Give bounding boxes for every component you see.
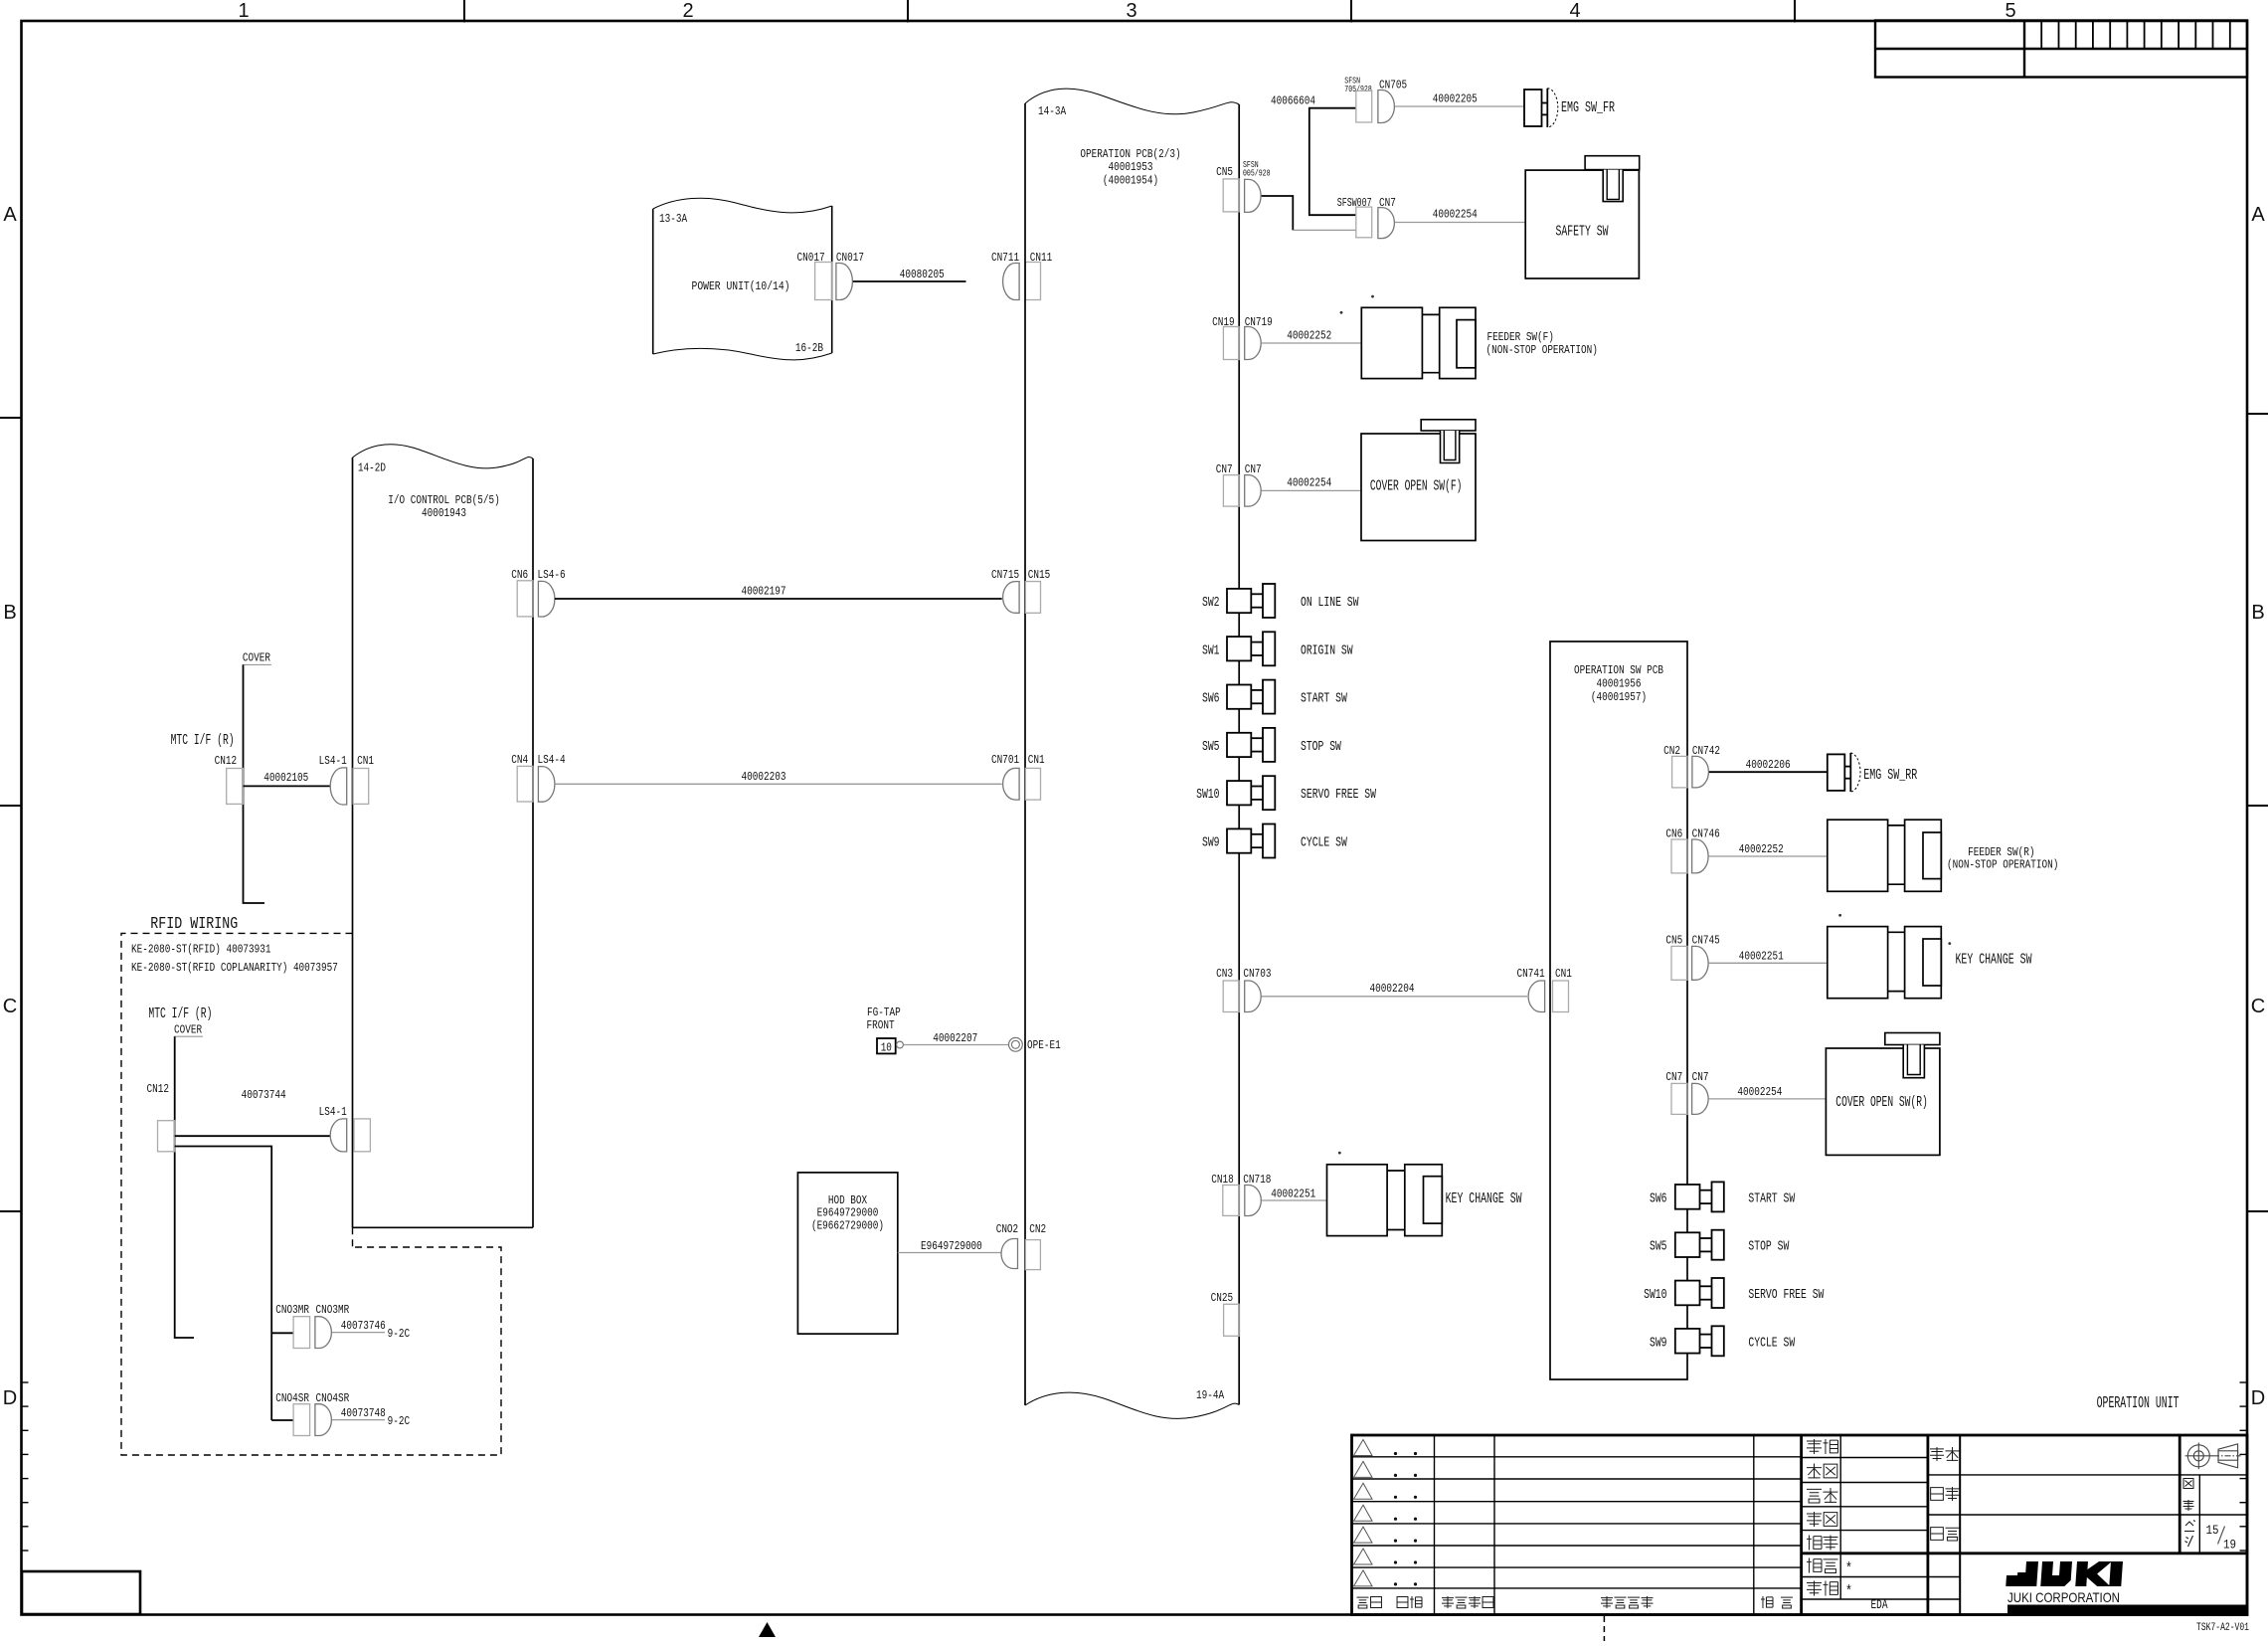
box HOD BOX <box>797 1173 897 1334</box>
emergency switch EMG SW_FR <box>1524 89 1558 127</box>
svg-text:CN4: CN4 <box>511 753 528 767</box>
svg-text:CYCLE SW: CYCLE SW <box>1748 1335 1795 1351</box>
svg-text:CN12: CN12 <box>147 1082 170 1096</box>
svg-text:CN7: CN7 <box>1216 462 1233 476</box>
zone tick top 3|4 <box>1350 0 1352 23</box>
terminal small circle <box>897 1041 904 1048</box>
svg-text:14-3A: 14-3A <box>1038 104 1067 118</box>
board POWER UNIT outline <box>653 198 832 360</box>
scale column thick divider <box>2179 1435 2181 1554</box>
wire 40002252 R <box>1709 855 1828 857</box>
black footer bar <box>2007 1605 2248 1617</box>
svg-text:LS4-1: LS4-1 <box>319 1105 347 1119</box>
switch SW5 (STOP SW) <box>1227 728 1275 762</box>
label hinban (part no.) <box>1931 1488 1944 1501</box>
revision table rows <box>1352 1457 1802 1588</box>
revision triangle row 2 <box>1354 1461 1373 1477</box>
svg-text:CYCLE SW: CYCLE SW <box>1301 835 1347 851</box>
svg-text:SW2: SW2 <box>1202 595 1220 611</box>
label henko kiji (change note) <box>1601 1596 1613 1608</box>
svg-text:2: 2 <box>682 0 693 22</box>
cover wire vertical rfid <box>175 1036 194 1338</box>
board OPERATION PCB outline <box>1025 89 1239 1418</box>
approval table thick divider <box>1800 1435 1803 1615</box>
svg-text:40002251: 40002251 <box>1739 950 1784 964</box>
svg-text:13-3A: 13-3A <box>659 212 688 226</box>
svg-text:STOP SW: STOP SW <box>1301 739 1341 755</box>
svg-text:CN703: CN703 <box>1243 967 1271 981</box>
svg-text:SW5: SW5 <box>1650 1239 1667 1255</box>
svg-text:POWER UNIT(10/14): POWER UNIT(10/14) <box>692 279 790 293</box>
svg-text:CN715: CN715 <box>991 568 1019 582</box>
switch SW9 right board (CYCLE SW) <box>1675 1326 1724 1356</box>
svg-text:COVER OPEN SW(R): COVER OPEN SW(R) <box>1835 1094 1928 1111</box>
svg-text:CN5: CN5 <box>1216 165 1233 179</box>
svg-text:CN12: CN12 <box>215 754 238 768</box>
svg-text:A: A <box>3 204 17 226</box>
rfid branch wire <box>175 1147 293 1421</box>
svg-text:40080205: 40080205 <box>900 268 945 281</box>
svg-text:40002205: 40002205 <box>1433 92 1478 106</box>
svg-text:C: C <box>3 996 17 1017</box>
svg-text:SW5: SW5 <box>1202 739 1220 755</box>
svg-text:40002207: 40002207 <box>933 1031 977 1045</box>
svg-text:40001953: 40001953 <box>1109 160 1153 174</box>
wire 40002205 <box>1395 105 1524 107</box>
svg-text:40002206: 40002206 <box>1746 758 1791 772</box>
terminal 10 box <box>877 1038 896 1053</box>
svg-text:40002105: 40002105 <box>263 771 308 785</box>
revision dots row 2 <box>1394 1474 1397 1477</box>
revision dots row 3 <box>1394 1496 1397 1499</box>
switch SW1 (ORIGIN SW) <box>1227 632 1275 665</box>
svg-text:1: 1 <box>238 0 249 22</box>
model table rows <box>1928 1475 2247 1515</box>
model label column divider <box>1959 1435 1961 1615</box>
svg-text:CN7: CN7 <box>1692 1070 1709 1084</box>
svg-text:16-2B: 16-2B <box>795 341 823 355</box>
svg-text:START SW: START SW <box>1301 691 1347 707</box>
revision dots row 7 <box>1394 1582 1397 1585</box>
svg-text:CNO3MR: CNO3MR <box>316 1303 350 1317</box>
JUKI logo <box>2006 1561 2123 1586</box>
cover wire vertical <box>244 664 265 903</box>
zone tick top 1|2 <box>463 0 465 23</box>
revision triangle row 5 <box>1354 1527 1373 1543</box>
switch SW9 (CYCLE SW) <box>1227 824 1275 858</box>
revision dots row 6 <box>1394 1560 1397 1563</box>
svg-text:SW6: SW6 <box>1202 691 1220 707</box>
switch SW5 right board (STOP SW) <box>1675 1230 1724 1260</box>
revision triangle row 4 <box>1354 1505 1373 1521</box>
svg-text:SW6: SW6 <box>1650 1190 1667 1206</box>
wire 40002254 cover F <box>1262 489 1361 491</box>
label sakusei (created) <box>1807 1536 1822 1551</box>
svg-text:JUKI CORPORATION: JUKI CORPORATION <box>2007 1589 2120 1605</box>
svg-text:A: A <box>2251 204 2265 226</box>
svg-text:14-2D: 14-2D <box>358 461 386 475</box>
thick row line above hokan <box>1802 1552 2247 1555</box>
svg-text:SW9: SW9 <box>1650 1335 1667 1351</box>
svg-text:SW10: SW10 <box>1644 1287 1666 1303</box>
svg-text:I/O CONTROL PCB(5/5): I/O CONTROL PCB(5/5) <box>388 493 499 507</box>
svg-text:SAFETY SW: SAFETY SW <box>1556 224 1609 241</box>
svg-text:40073748: 40073748 <box>341 1406 386 1420</box>
svg-text:CN701: CN701 <box>991 753 1019 767</box>
zone tick right C|D <box>2247 1210 2268 1212</box>
label shonin (approved) <box>1807 1439 1822 1454</box>
svg-text:005/928: 005/928 <box>1243 169 1271 179</box>
svg-text:COVER OPEN SW(F): COVER OPEN SW(F) <box>1370 478 1463 495</box>
svg-text:COVER: COVER <box>243 651 270 665</box>
box SAFETY SW <box>1525 170 1639 278</box>
wire from CN5 <box>1262 196 1294 230</box>
svg-text:SERVO FREE SW: SERVO FREE SW <box>1301 787 1376 803</box>
svg-text:FG-TAP: FG-TAP <box>867 1006 901 1019</box>
svg-text:OPE-E1: OPE-E1 <box>1027 1038 1061 1052</box>
svg-text:B: B <box>3 602 16 624</box>
stray dots <box>1338 295 1951 1155</box>
svg-text:19-4A: 19-4A <box>1196 1388 1225 1402</box>
svg-text:RFID WIRING: RFID WIRING <box>150 915 238 934</box>
svg-text:D: D <box>2251 1387 2265 1409</box>
svg-text:(40001954): (40001954) <box>1103 174 1158 188</box>
svg-text:CN6: CN6 <box>511 568 528 582</box>
zone tick right B|C <box>2247 805 2268 807</box>
wire 40002254 safety <box>1395 222 1525 224</box>
svg-text:CNO2: CNO2 <box>996 1222 1019 1236</box>
svg-text:KEY CHANGE SW: KEY CHANGE SW <box>1956 951 2032 968</box>
feeder switch (F) body <box>1361 307 1476 378</box>
label hinmei (part name) <box>1931 1528 1944 1541</box>
svg-text:15: 15 <box>2206 1523 2219 1538</box>
label sekkei (design) <box>1807 1489 1822 1503</box>
svg-text:40002204: 40002204 <box>1370 982 1415 996</box>
svg-text:EDA: EDA <box>1871 1597 1888 1612</box>
revision triangle row 6 <box>1354 1549 1373 1564</box>
board I/O CONTROL PCB outline <box>353 445 534 1227</box>
svg-text:KE-2080-ST(RFID COPLANARITY) 4: KE-2080-ST(RFID COPLANARITY) 40073957 <box>131 961 338 975</box>
wire 40002207 <box>903 1044 1008 1046</box>
svg-text:40002254: 40002254 <box>1287 476 1331 490</box>
label tanto (in charge) <box>1761 1596 1773 1608</box>
svg-text:KEY CHANGE SW: KEY CHANGE SW <box>1446 1190 1522 1207</box>
zone tick top 2|3 <box>907 0 909 23</box>
svg-text:ON LINE SW: ON LINE SW <box>1301 595 1359 611</box>
feeder switch (R) body <box>1828 820 1942 891</box>
svg-text:40066604: 40066604 <box>1271 94 1315 108</box>
switch SW6 right board (START SW) <box>1675 1182 1724 1211</box>
svg-text:D: D <box>3 1387 17 1409</box>
svg-text:FRONT: FRONT <box>867 1018 895 1032</box>
svg-text:3: 3 <box>1126 0 1136 22</box>
top right revision strip block <box>1875 21 2247 78</box>
switch SW10 right board (SERVO FREE SW) <box>1675 1278 1724 1308</box>
switch SW2 (ON LINE SW) <box>1227 584 1275 618</box>
svg-text:CN1: CN1 <box>1555 967 1572 981</box>
svg-text:40001956: 40001956 <box>1597 677 1642 691</box>
svg-text:OPERATION UNIT: OPERATION UNIT <box>2097 1394 2180 1413</box>
svg-text:TSK7-A2-V01: TSK7-A2-V01 <box>2196 1622 2249 1634</box>
box COVER OPEN SW(R) <box>1826 1048 1940 1155</box>
center fold triangle <box>759 1622 776 1637</box>
svg-text:E9649729000: E9649729000 <box>921 1239 982 1253</box>
svg-text:10: 10 <box>881 1041 892 1055</box>
wire 40002105 <box>244 785 331 787</box>
svg-text:40073746: 40073746 <box>341 1319 386 1333</box>
svg-text:(E9662729000): (E9662729000) <box>811 1219 884 1233</box>
label page (katakana) <box>2184 1521 2195 1548</box>
svg-text:CN741: CN741 <box>1517 967 1545 981</box>
label henko bango (change no.) <box>1442 1596 1454 1608</box>
svg-text:LS4-6: LS4-6 <box>538 568 566 582</box>
svg-text:CN15: CN15 <box>1028 568 1051 582</box>
svg-text:CN745: CN745 <box>1692 934 1720 948</box>
svg-text:40002254: 40002254 <box>1433 208 1478 222</box>
svg-text:9-2C: 9-2C <box>388 1327 411 1341</box>
revision dots row 1 <box>1394 1452 1397 1455</box>
svg-text:40001943: 40001943 <box>422 506 466 520</box>
wire E9649729000 <box>898 1252 1001 1254</box>
svg-text:CN1: CN1 <box>357 754 374 768</box>
revision triangle row 3 <box>1354 1483 1373 1499</box>
zone tick left C|D <box>0 1210 21 1212</box>
model table thick divider <box>1927 1435 1930 1615</box>
svg-text:SW1: SW1 <box>1202 642 1220 658</box>
ruler ticks right zone D <box>2240 1382 2248 1551</box>
svg-text:EMG SW_RR: EMG SW_RR <box>1863 767 1917 784</box>
projection symbol cone <box>2213 1444 2241 1468</box>
label katashiki (model) <box>1930 1447 1944 1461</box>
scale/page label divider <box>2198 1475 2200 1554</box>
revision table columns <box>1435 1435 1754 1615</box>
svg-text:CN7: CN7 <box>1665 1070 1682 1084</box>
svg-text:40002251: 40002251 <box>1271 1188 1315 1201</box>
zone tick top 4|5 <box>1794 0 1796 23</box>
svg-text:40002252: 40002252 <box>1287 329 1331 343</box>
safety sw T-tab <box>1585 156 1640 170</box>
ruler ticks left zone D <box>21 1382 29 1551</box>
wire 40002197 <box>555 598 1002 600</box>
svg-text:SW10: SW10 <box>1196 787 1219 803</box>
cover F T-tab <box>1421 420 1476 431</box>
svg-text:OPERATION SW PCB: OPERATION SW PCB <box>1574 663 1663 677</box>
label seizu (drafted) <box>1807 1512 1822 1527</box>
svg-text:STOP SW: STOP SW <box>1748 1239 1789 1255</box>
svg-text:ORIGIN SW: ORIGIN SW <box>1301 642 1353 658</box>
emergency switch EMG SW_RR <box>1828 753 1860 792</box>
RFID dashed boundary <box>121 933 501 1455</box>
svg-text:40002203: 40002203 <box>742 770 786 784</box>
svg-text:40073744: 40073744 <box>242 1088 286 1102</box>
wire 40002251 F <box>1262 1199 1327 1201</box>
svg-text:40002252: 40002252 <box>1739 842 1784 856</box>
label kigo (sign) <box>1357 1597 1369 1608</box>
svg-text:CNO4SR: CNO4SR <box>275 1391 309 1405</box>
label shakudo (scale) <box>2183 1479 2193 1489</box>
wire 40073746 <box>332 1332 385 1334</box>
label hokan (storage) <box>1807 1558 1822 1573</box>
wire 40002206 <box>1709 771 1828 773</box>
switch SW10 (SERVO FREE SW) <box>1227 776 1275 810</box>
switch SW6 (START SW) <box>1227 680 1275 714</box>
ring terminal OPE-E1 <box>1009 1037 1023 1051</box>
wire 40080205 <box>853 280 966 282</box>
board OPERATION SW PCB <box>1550 641 1687 1379</box>
svg-text:MTC I/F (R): MTC I/F (R) <box>171 732 235 749</box>
svg-text:*: * <box>1845 1560 1852 1577</box>
key change switch (R) body <box>1828 927 1942 999</box>
svg-text:E9649729000: E9649729000 <box>817 1206 879 1220</box>
svg-text:EMG SW_FR: EMG SW_FR <box>1561 99 1615 116</box>
svg-text:*: * <box>1845 1583 1852 1600</box>
svg-text:(NON-STOP OPERATION): (NON-STOP OPERATION) <box>1486 343 1598 357</box>
svg-text:CN7: CN7 <box>1245 462 1262 476</box>
svg-text:SERVO FREE SW: SERVO FREE SW <box>1748 1287 1824 1303</box>
svg-text:19: 19 <box>2223 1538 2236 1553</box>
svg-text:(NON-STOP OPERATION): (NON-STOP OPERATION) <box>1947 858 2058 872</box>
fold mark dashed line <box>1603 1616 1605 1641</box>
projection symbol circles <box>2185 1443 2213 1470</box>
revision triangle row 7 <box>1354 1570 1373 1586</box>
svg-text:CN5: CN5 <box>1665 934 1682 948</box>
svg-text:4: 4 <box>1569 0 1580 22</box>
zone tick left A|B <box>0 417 21 419</box>
label hizuke (date) <box>1397 1597 1408 1608</box>
svg-text:FEEDER SW(F): FEEDER SW(F) <box>1487 330 1554 344</box>
svg-text:CNO4SR: CNO4SR <box>316 1391 350 1405</box>
svg-text:CN3: CN3 <box>1216 967 1233 981</box>
svg-text:CN1: CN1 <box>1028 753 1045 767</box>
revision dots row 4 <box>1394 1518 1397 1521</box>
svg-text:SW9: SW9 <box>1202 835 1220 851</box>
revision triangle row 1 <box>1354 1440 1373 1456</box>
svg-text:9-2C: 9-2C <box>388 1414 411 1428</box>
svg-text:KE-2080-ST(RFID) 40073931: KE-2080-ST(RFID) 40073931 <box>131 943 271 957</box>
approval label column divider <box>1839 1435 1841 1599</box>
svg-text:OPERATION PCB(2/3): OPERATION PCB(2/3) <box>1080 147 1180 161</box>
bottom-left corner box <box>22 1571 140 1614</box>
revision dots row 5 <box>1394 1540 1397 1543</box>
svg-text:705/928: 705/928 <box>1344 85 1372 94</box>
key change switch (F) body <box>1327 1165 1443 1236</box>
svg-text:CN25: CN25 <box>1211 1291 1234 1305</box>
svg-text:CNO3MR: CNO3MR <box>275 1303 309 1317</box>
label kenzu (checked) <box>1807 1464 1822 1479</box>
svg-text:5: 5 <box>2005 0 2015 22</box>
wire 40073744 <box>175 1135 331 1137</box>
wire 40002203 <box>555 783 1002 785</box>
svg-text:LS4-1: LS4-1 <box>319 754 347 768</box>
svg-text:40002254: 40002254 <box>1737 1085 1782 1099</box>
svg-text:40002197: 40002197 <box>742 585 786 599</box>
connector rect LS4-1 rfid <box>354 1119 370 1152</box>
svg-text:(40001957): (40001957) <box>1591 690 1647 704</box>
svg-text:COVER: COVER <box>174 1023 202 1037</box>
wire 40002252 F <box>1262 342 1361 344</box>
svg-text:CN2: CN2 <box>1029 1222 1046 1236</box>
top right strip small cells <box>2041 21 2230 50</box>
wire 40002204 <box>1262 996 1527 998</box>
label ruiji (similar) <box>1807 1581 1822 1596</box>
cover R T-tab <box>1885 1033 1940 1045</box>
svg-text:START SW: START SW <box>1748 1190 1795 1206</box>
svg-text:SFSW007: SFSW007 <box>1337 196 1372 210</box>
approval table rows <box>1802 1458 1961 1600</box>
svg-text:B: B <box>2251 602 2264 624</box>
svg-text:MTC I/F (R): MTC I/F (R) <box>148 1006 212 1022</box>
zone tick right A|B <box>2247 413 2268 415</box>
wire 40002251 R <box>1709 962 1828 964</box>
svg-text:C: C <box>2251 996 2265 1017</box>
wire 40073748 <box>332 1419 385 1421</box>
zone tick left B|C <box>0 805 21 807</box>
wire 40002254 R <box>1709 1098 1827 1100</box>
svg-text:LS4-4: LS4-4 <box>538 753 566 767</box>
box COVER OPEN SW(F) <box>1361 434 1476 541</box>
title block outer <box>1352 1435 2248 1615</box>
